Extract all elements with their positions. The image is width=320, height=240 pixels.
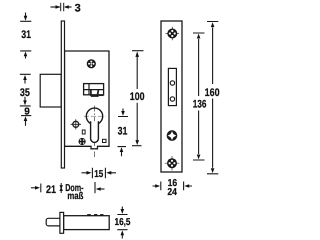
svg-text:3: 3 xyxy=(75,3,81,15)
svg-text:100: 100 xyxy=(130,91,145,103)
dimension 9 left (latch bottom to cylinder axis) xyxy=(21,116,31,126)
screw bottom (front view) xyxy=(165,156,179,171)
dimension 16/24 (plate widths) xyxy=(153,182,193,191)
svg-text:31: 31 xyxy=(21,29,31,41)
follower mechanism box xyxy=(84,84,104,95)
dimension 35 left (latch top to latch bottom) xyxy=(20,74,31,106)
svg-text:35: 35 xyxy=(20,87,30,99)
screw top (side view) xyxy=(87,59,96,68)
arrowheads dim 3 xyxy=(56,5,61,9)
lock case (side view) with notch at bottom xyxy=(65,51,110,149)
centerline of cylinder (horizontal) xyxy=(84,115,106,117)
dimension 3 (faceplate thickness) xyxy=(61,3,64,11)
follower notch xyxy=(91,90,99,96)
dimension 100 (case height) xyxy=(132,51,144,146)
dimension 21 (latch protrusion) xyxy=(31,184,41,193)
dimension 136 (screw to screw) xyxy=(193,33,205,160)
svg-text:15: 15 xyxy=(94,169,103,180)
svg-text:160: 160 xyxy=(205,87,220,99)
dimension 15 (cylinder cutout) xyxy=(82,168,117,179)
plan view: rivet ticks on top edge xyxy=(87,214,91,216)
screw middle with star (front view) xyxy=(167,130,178,141)
double arrow mark at faceplate line xyxy=(60,183,62,193)
plan view: latch bolt xyxy=(46,218,61,226)
dimension 160 (plate length) xyxy=(207,22,218,174)
cutout hole lower xyxy=(170,97,174,101)
latch cutout xyxy=(168,68,176,105)
faceplate (side view, edge-on) xyxy=(61,21,64,168)
svg-text:maß: maß xyxy=(67,191,83,202)
euro profile cylinder circle xyxy=(86,108,102,124)
follower divider vertical xyxy=(88,84,90,95)
screw star (side view) xyxy=(79,138,86,145)
Dommaß dimension bar and arrow at cylinder axis xyxy=(95,182,105,193)
svg-text:136: 136 xyxy=(193,99,207,111)
screw left with crosshair (side view) xyxy=(73,121,79,127)
small square left xyxy=(82,130,85,134)
svg-text:21: 21 xyxy=(46,184,56,196)
dimension 31 left (faceplate top to case top) xyxy=(20,13,31,59)
latch bolt (side view) xyxy=(40,74,61,107)
centerline of cylinder (vertical dash-dot) xyxy=(94,106,96,158)
euro profile cylinder lower lobe xyxy=(91,121,99,142)
dimension 16,5 (case thickness) xyxy=(117,207,127,239)
faceplate front view xyxy=(161,21,182,172)
small square right xyxy=(103,139,107,142)
svg-text:16,5: 16,5 xyxy=(115,217,131,228)
svg-text:31: 31 xyxy=(118,125,128,137)
cutout hole upper xyxy=(170,81,174,85)
svg-text:24: 24 xyxy=(167,187,177,198)
dimension 31 right (cylinder axis to case bottom) xyxy=(118,109,129,157)
plan view: faceplate cross-section xyxy=(60,212,64,233)
screw top (front view) xyxy=(166,27,180,41)
svg-text:9: 9 xyxy=(24,106,30,117)
follower divider horizontal xyxy=(84,89,104,91)
plan view: lock body xyxy=(64,216,110,230)
